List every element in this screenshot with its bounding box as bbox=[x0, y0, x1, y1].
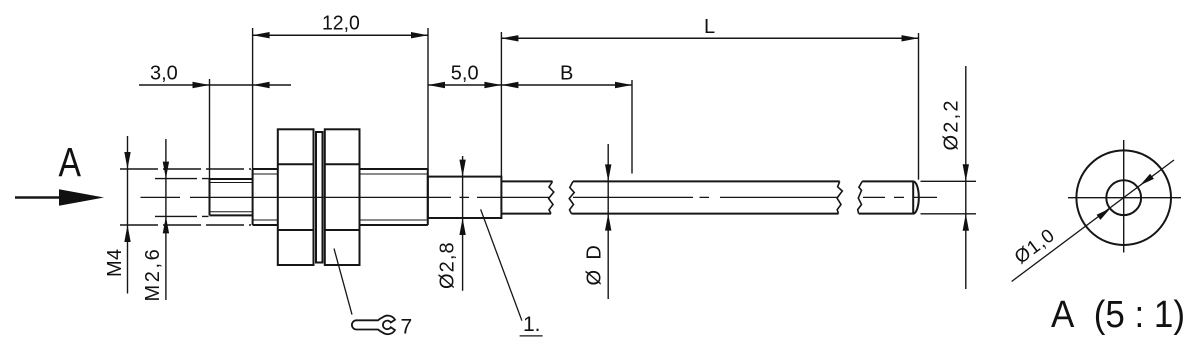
dimension L line bbox=[501, 37, 918, 39]
M4 thread OD dashed extension left bottom bbox=[120, 224, 251, 226]
M2,6 arrow top bbox=[163, 162, 169, 179]
svg-text:12,0: 12,0 bbox=[322, 12, 360, 34]
extension line 3,0 left / tip left edge bbox=[209, 79, 211, 179]
view arrow A head bbox=[59, 189, 104, 205]
view arrow A line bbox=[15, 196, 62, 199]
svg-text:7: 7 bbox=[401, 316, 413, 339]
extension line L right bbox=[918, 33, 920, 180]
M2,6 dimension line vertical bbox=[165, 139, 167, 300]
M4 thread root lines left segment bbox=[253, 174, 278, 220]
cylinder D2,8 bbox=[428, 177, 502, 218]
extension line at step M2,6/M4 bbox=[252, 28, 254, 169]
cable segment 3 tip with rounded end bbox=[859, 181, 919, 213]
dimension DD line vertical bbox=[607, 144, 609, 299]
cable break 4 zigzag bbox=[858, 181, 863, 213]
detail crosshair horizontal bbox=[1068, 197, 1181, 199]
D1,0 arrow upper right bbox=[1140, 174, 1154, 186]
svg-text:M4: M4 bbox=[104, 248, 126, 277]
M2,6 arrow bottom bbox=[163, 216, 169, 233]
D2,8 arrow bottom bbox=[459, 218, 465, 235]
M4 thread root lines right segment bbox=[360, 174, 428, 220]
dimension 5,0 arrow left bbox=[428, 82, 445, 88]
M4 thread section left of nut bbox=[253, 169, 278, 225]
svg-text:A (5 : 1): A (5 : 1) bbox=[1051, 294, 1185, 336]
dimension 3,0 arrow right (outside) bbox=[253, 82, 270, 88]
wrench icon bbox=[352, 316, 395, 335]
dimension 3,0 line bbox=[139, 84, 291, 86]
dimension D2,2 line vertical bbox=[965, 66, 967, 289]
detail view outer circle bbox=[1076, 150, 1171, 245]
detail diameter leader diagonal bbox=[1012, 160, 1174, 282]
dimension B arrow left bbox=[501, 82, 518, 88]
hex nut 1 flat line bottom bbox=[278, 229, 314, 231]
dimension D2,8 line vertical bbox=[462, 156, 464, 291]
cable segment 1 bbox=[501, 181, 552, 213]
D2,2 extension line top bbox=[921, 180, 977, 182]
M4 arrow bottom bbox=[124, 225, 130, 242]
hex nut 1 bbox=[278, 129, 314, 265]
cable break 3 zigzag bbox=[837, 181, 842, 213]
svg-text:3,0: 3,0 bbox=[150, 63, 178, 85]
M2,6 threaded tip outline bbox=[210, 179, 253, 215]
M4 dimension line vertical bbox=[127, 136, 129, 294]
D2,2 arrow top bbox=[963, 164, 969, 181]
hex nut 2 flat line bottom bbox=[325, 229, 360, 231]
step face M4 to cylinder bbox=[427, 169, 429, 225]
svg-text:Ø2,2: Ø2,2 bbox=[941, 98, 963, 150]
cable break 2 zigzag bbox=[569, 181, 574, 213]
extension line 5,0 right / B left / L left bbox=[500, 32, 502, 176]
detail crosshair vertical bbox=[1123, 140, 1125, 253]
D2,8 arrow top bbox=[459, 160, 465, 177]
M4 thread OD dashed extension left top bbox=[120, 168, 251, 170]
svg-text:Ø2,8: Ø2,8 bbox=[437, 241, 459, 289]
hex nut 2 bbox=[325, 129, 360, 265]
extension line 12,0 right / 5,0 left bbox=[427, 28, 429, 169]
M2,6 thread root line top bbox=[210, 182, 253, 184]
svg-text:A: A bbox=[59, 139, 82, 185]
M4 arrow top bbox=[124, 152, 130, 169]
dimension 12,0 line bbox=[253, 34, 428, 36]
DD arrow top bbox=[605, 164, 611, 181]
leader line wrench callout bbox=[334, 249, 352, 315]
M2,6 extension line top bbox=[155, 178, 209, 180]
hex nut 1 flat line top bbox=[278, 163, 314, 165]
svg-text:M2,6: M2,6 bbox=[142, 247, 164, 302]
dimension L arrow left bbox=[501, 35, 518, 41]
D2,2 arrow bottom bbox=[963, 214, 969, 231]
dimension B line bbox=[501, 84, 632, 86]
M2,6 thread root line bottom bbox=[210, 211, 253, 213]
hex nut 2 flat line top bbox=[325, 163, 360, 165]
callout underline bbox=[520, 335, 543, 337]
dimension 12,0 arrow right bbox=[411, 32, 428, 38]
svg-text:Ø D: Ø D bbox=[584, 243, 606, 286]
step face M2,6 to M4 bbox=[252, 169, 254, 225]
dimension 3,0 arrow left (outside) bbox=[193, 82, 210, 88]
leader line 1. callout bbox=[481, 209, 522, 320]
svg-text:L: L bbox=[704, 16, 715, 38]
DD arrow bottom bbox=[605, 214, 611, 231]
cable break 1 zigzag bbox=[549, 181, 554, 213]
dimension 12,0 arrow left bbox=[253, 32, 270, 38]
D1,0 arrow lower left bbox=[1097, 208, 1111, 220]
dimension 5,0 line bbox=[428, 84, 501, 86]
svg-text:5,0: 5,0 bbox=[451, 63, 479, 85]
D2,2 extension line bottom bbox=[921, 213, 977, 215]
svg-text:1.: 1. bbox=[523, 313, 541, 336]
M4 thread section right of nut bbox=[360, 169, 428, 225]
detail view inner circle bbox=[1106, 180, 1141, 215]
extension line B right bbox=[631, 80, 633, 174]
dimension 5,0 arrow right bbox=[484, 82, 501, 88]
dimension L arrow right bbox=[902, 35, 919, 41]
cable segment 2 bbox=[571, 181, 839, 213]
dimension B arrow right bbox=[615, 82, 632, 88]
washer bbox=[316, 132, 323, 263]
M2,6 extension line bottom bbox=[155, 215, 209, 217]
centerline main axis bbox=[141, 196, 938, 198]
svg-text:B: B bbox=[560, 63, 573, 85]
